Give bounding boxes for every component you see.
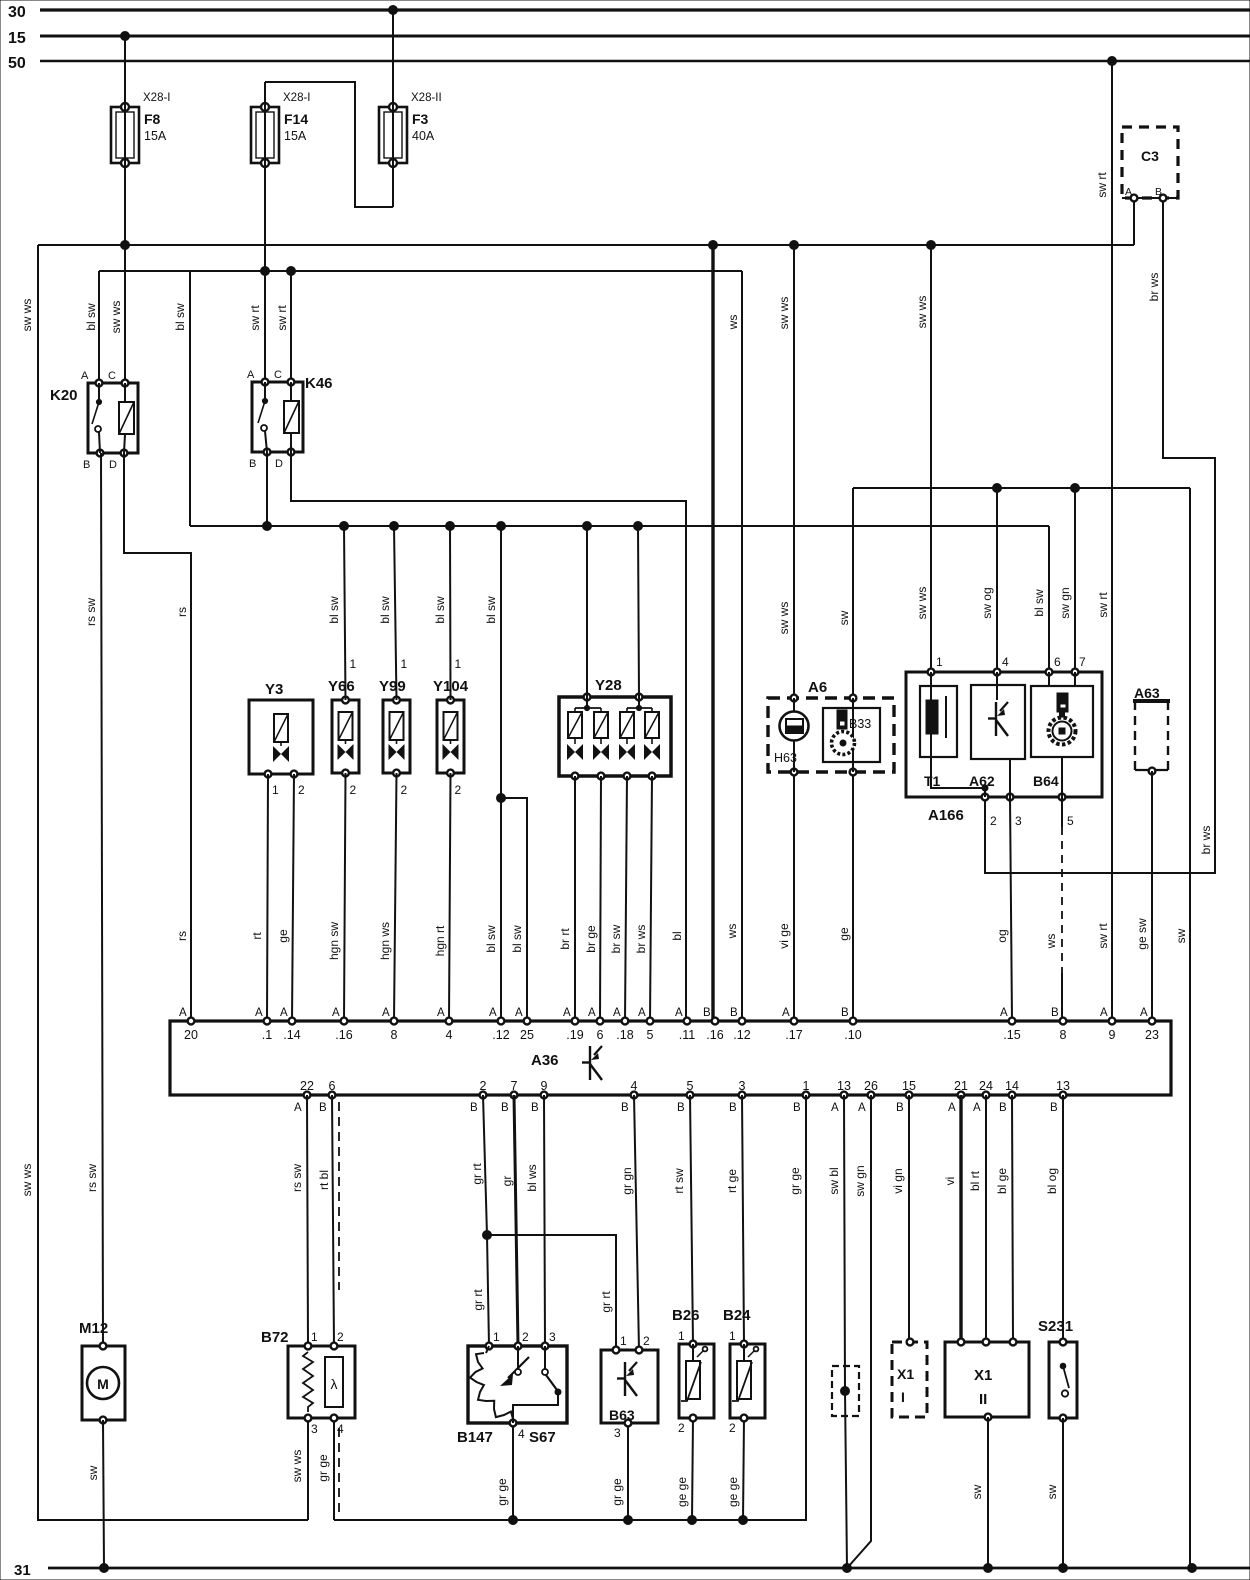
- svg-text:1: 1: [401, 657, 408, 671]
- svg-text:A: A: [1100, 1007, 1108, 1019]
- svg-text:A: A: [973, 1102, 981, 1114]
- svg-text:hgn rt: hgn rt: [433, 925, 447, 956]
- svg-text:.11: .11: [679, 1028, 695, 1042]
- svg-text:gr ge: gr ge: [788, 1167, 802, 1195]
- svg-text:br sw: br sw: [609, 924, 623, 953]
- svg-text:sw rt: sw rt: [1096, 592, 1110, 618]
- svg-text:ge ge: ge ge: [675, 1477, 689, 1507]
- svg-text:sw gn: sw gn: [853, 1165, 867, 1196]
- svg-text:2: 2: [350, 783, 357, 797]
- svg-text:9: 9: [1109, 1028, 1116, 1042]
- svg-text:rt sw: rt sw: [672, 1168, 686, 1194]
- svg-text:14: 14: [1005, 1079, 1019, 1093]
- svg-text:15A: 15A: [144, 129, 167, 143]
- svg-text:B: B: [677, 1102, 685, 1114]
- svg-text:X1: X1: [897, 1366, 914, 1382]
- svg-text:sw: sw: [86, 1465, 100, 1480]
- svg-text:A: A: [563, 1007, 571, 1019]
- svg-text:A: A: [588, 1007, 596, 1019]
- svg-text:5: 5: [647, 1028, 654, 1042]
- svg-text:I: I: [901, 1389, 905, 1405]
- svg-text:rs sw: rs sw: [84, 598, 98, 626]
- svg-text:rt: rt: [250, 932, 264, 940]
- svg-text:.16: .16: [706, 1028, 723, 1042]
- svg-text:F3: F3: [412, 111, 429, 127]
- svg-text:br rt: br rt: [558, 928, 572, 950]
- svg-text:1: 1: [455, 657, 462, 671]
- svg-text:8: 8: [1060, 1028, 1067, 1042]
- svg-text:1: 1: [803, 1079, 810, 1093]
- svg-text:B: B: [841, 1007, 849, 1019]
- svg-text:A36: A36: [531, 1052, 559, 1069]
- svg-text:X28-I: X28-I: [143, 92, 171, 104]
- svg-text:B147: B147: [457, 1429, 493, 1446]
- svg-text:C3: C3: [1141, 148, 1159, 164]
- svg-text:Y99: Y99: [379, 678, 406, 695]
- svg-text:sw: sw: [1174, 928, 1188, 943]
- svg-text:gr ge: gr ge: [610, 1478, 624, 1506]
- svg-text:vi gn: vi gn: [891, 1168, 905, 1193]
- svg-text:9: 9: [541, 1079, 548, 1093]
- svg-text:.1: .1: [262, 1028, 272, 1042]
- svg-text:bl sw: bl sw: [1032, 589, 1046, 617]
- svg-text:S67: S67: [529, 1429, 556, 1446]
- svg-text:2: 2: [522, 1330, 529, 1344]
- svg-text:gr rt: gr rt: [599, 1291, 613, 1313]
- svg-text:20: 20: [184, 1028, 198, 1042]
- svg-text:br ws: br ws: [634, 925, 648, 954]
- svg-text:bl sw: bl sw: [84, 303, 98, 331]
- svg-text:rs sw: rs sw: [290, 1164, 304, 1192]
- svg-text:A166: A166: [928, 807, 964, 824]
- svg-text:gr rt: gr rt: [471, 1289, 485, 1311]
- svg-text:sw bl: sw bl: [827, 1167, 841, 1194]
- svg-text:bl: bl: [670, 931, 684, 940]
- svg-text:vi ge: vi ge: [777, 923, 791, 949]
- svg-text:M12: M12: [79, 1320, 108, 1337]
- svg-text:22: 22: [300, 1079, 314, 1093]
- svg-text:7: 7: [1079, 655, 1086, 669]
- svg-text:D: D: [275, 458, 283, 470]
- svg-text:bl sw: bl sw: [484, 596, 498, 624]
- svg-text:M: M: [97, 1376, 109, 1392]
- svg-text:6: 6: [597, 1028, 604, 1042]
- svg-text:ws: ws: [1044, 934, 1058, 950]
- svg-text:sw ws: sw ws: [20, 1164, 34, 1197]
- svg-text:6: 6: [1054, 655, 1061, 669]
- svg-text:4: 4: [446, 1028, 453, 1042]
- svg-text:sw: sw: [1045, 1484, 1059, 1499]
- svg-text:B33: B33: [849, 717, 871, 731]
- svg-text:13: 13: [1056, 1079, 1070, 1093]
- svg-text:gr: gr: [500, 1176, 514, 1187]
- svg-text:.12: .12: [492, 1028, 509, 1042]
- svg-text:bl sw: bl sw: [484, 925, 498, 953]
- svg-text:br ge: br ge: [584, 925, 598, 953]
- svg-text:Y3: Y3: [265, 681, 283, 698]
- svg-text:sw ws: sw ws: [290, 1450, 304, 1483]
- svg-text:.18: .18: [616, 1028, 633, 1042]
- svg-text:3: 3: [311, 1422, 318, 1436]
- svg-text:B26: B26: [672, 1307, 700, 1324]
- svg-text:A: A: [81, 370, 89, 382]
- svg-text:B: B: [319, 1102, 327, 1114]
- svg-text:2: 2: [729, 1421, 736, 1435]
- svg-text:bl sw: bl sw: [433, 596, 447, 624]
- svg-text:F8: F8: [144, 111, 161, 127]
- svg-text:3: 3: [549, 1330, 556, 1344]
- svg-text:sw gn: sw gn: [1058, 587, 1072, 618]
- svg-text:sw: sw: [970, 1484, 984, 1499]
- svg-text:A: A: [489, 1007, 497, 1019]
- svg-text:.15: .15: [1003, 1028, 1020, 1042]
- svg-text:5: 5: [1067, 814, 1074, 828]
- svg-text:sw ws: sw ws: [915, 296, 929, 329]
- svg-text:B: B: [999, 1102, 1007, 1114]
- svg-text:T1: T1: [924, 773, 941, 789]
- svg-text:rt bl: rt bl: [317, 1170, 331, 1190]
- svg-text:gr ge: gr ge: [495, 1478, 509, 1506]
- svg-text:1: 1: [311, 1330, 318, 1344]
- svg-text:B: B: [501, 1102, 509, 1114]
- svg-text:1: 1: [729, 1329, 736, 1343]
- svg-text:X28-I: X28-I: [283, 92, 311, 104]
- svg-text:.16: .16: [335, 1028, 352, 1042]
- svg-text:rs sw: rs sw: [85, 1164, 99, 1192]
- svg-text:A: A: [782, 1007, 790, 1019]
- svg-text:1: 1: [620, 1334, 627, 1348]
- svg-text:gr ge: gr ge: [316, 1454, 330, 1482]
- svg-text:sw rt: sw rt: [248, 305, 262, 331]
- svg-text:sw rt: sw rt: [275, 305, 289, 331]
- svg-text:F14: F14: [284, 111, 308, 127]
- svg-text:bl sw: bl sw: [173, 303, 187, 331]
- svg-text:21: 21: [954, 1079, 968, 1093]
- svg-text:X1: X1: [974, 1367, 992, 1384]
- svg-text:gr gn: gr gn: [620, 1167, 634, 1194]
- svg-text:6: 6: [329, 1079, 336, 1093]
- svg-text:B: B: [896, 1102, 904, 1114]
- svg-text:A: A: [332, 1007, 340, 1019]
- svg-text:8: 8: [391, 1028, 398, 1042]
- svg-text:5: 5: [687, 1079, 694, 1093]
- svg-text:B: B: [703, 1007, 711, 1019]
- svg-text:.19: .19: [566, 1028, 583, 1042]
- svg-text:24: 24: [979, 1079, 993, 1093]
- svg-text:B64: B64: [1033, 773, 1059, 789]
- svg-text:B: B: [730, 1007, 738, 1019]
- svg-text:hgn ws: hgn ws: [378, 922, 392, 960]
- svg-text:B: B: [621, 1102, 629, 1114]
- svg-text:sw ws: sw ws: [777, 602, 791, 635]
- svg-text:D: D: [109, 459, 117, 471]
- svg-text:50: 50: [8, 55, 26, 72]
- svg-text:λ: λ: [331, 1376, 338, 1392]
- svg-text:B: B: [729, 1102, 737, 1114]
- svg-text:23: 23: [1145, 1028, 1159, 1042]
- svg-text:ws: ws: [725, 924, 739, 940]
- svg-text:2: 2: [337, 1330, 344, 1344]
- svg-text:og: og: [995, 929, 1009, 942]
- svg-text:25: 25: [520, 1028, 534, 1042]
- svg-text:.12: .12: [733, 1028, 750, 1042]
- svg-text:C: C: [274, 369, 282, 381]
- svg-text:sw ws: sw ws: [777, 297, 791, 330]
- svg-text:15A: 15A: [284, 129, 307, 143]
- svg-text:B: B: [1051, 1007, 1059, 1019]
- svg-text:A: A: [247, 369, 255, 381]
- svg-text:II: II: [979, 1391, 987, 1408]
- svg-text:bl ge: bl ge: [995, 1168, 1009, 1194]
- svg-text:bl rt: bl rt: [968, 1170, 982, 1191]
- svg-text:.10: .10: [844, 1028, 861, 1042]
- svg-text:H63: H63: [774, 751, 797, 765]
- svg-text:A: A: [1140, 1007, 1148, 1019]
- svg-text:sw ws: sw ws: [109, 301, 123, 334]
- svg-text:4: 4: [518, 1427, 525, 1441]
- svg-text:gr rt: gr rt: [470, 1163, 484, 1185]
- svg-text:15: 15: [8, 30, 26, 47]
- svg-text:B: B: [470, 1102, 478, 1114]
- svg-text:A: A: [382, 1007, 390, 1019]
- svg-text:sw ws: sw ws: [915, 587, 929, 620]
- svg-text:2: 2: [480, 1079, 487, 1093]
- svg-text:rs: rs: [175, 931, 189, 941]
- svg-text:Y66: Y66: [328, 678, 355, 695]
- svg-text:40A: 40A: [412, 129, 435, 143]
- svg-text:S231: S231: [1038, 1318, 1073, 1335]
- svg-text:rs: rs: [175, 607, 189, 617]
- svg-text:31: 31: [14, 1562, 31, 1579]
- svg-text:A: A: [294, 1102, 302, 1114]
- svg-text:13: 13: [837, 1079, 851, 1093]
- svg-text:A: A: [280, 1007, 288, 1019]
- svg-text:A: A: [831, 1102, 839, 1114]
- svg-text:ge: ge: [837, 927, 851, 941]
- svg-text:A: A: [1000, 1007, 1008, 1019]
- svg-text:sw og: sw og: [980, 587, 994, 618]
- svg-text:B: B: [249, 458, 256, 470]
- svg-text:2: 2: [455, 783, 462, 797]
- svg-text:ge ge: ge ge: [726, 1477, 740, 1507]
- svg-text:K46: K46: [305, 375, 333, 392]
- svg-text:1: 1: [350, 657, 357, 671]
- svg-text:A: A: [255, 1007, 263, 1019]
- svg-text:bl sw: bl sw: [327, 596, 341, 624]
- svg-text:2: 2: [678, 1421, 685, 1435]
- svg-text:15: 15: [902, 1079, 916, 1093]
- svg-text:K20: K20: [50, 387, 78, 404]
- svg-text:4: 4: [337, 1422, 344, 1436]
- svg-text:3: 3: [614, 1426, 621, 1440]
- svg-text:sw: sw: [837, 610, 851, 625]
- svg-text:bl ws: bl ws: [525, 1164, 539, 1191]
- svg-text:A: A: [675, 1007, 683, 1019]
- svg-text:C: C: [108, 370, 116, 382]
- svg-text:A: A: [858, 1102, 866, 1114]
- svg-text:sw rt: sw rt: [1095, 172, 1109, 198]
- svg-text:B: B: [793, 1102, 801, 1114]
- svg-text:B72: B72: [261, 1329, 289, 1346]
- svg-text:B: B: [531, 1102, 539, 1114]
- svg-text:3: 3: [739, 1079, 746, 1093]
- svg-text:X28-II: X28-II: [411, 92, 442, 104]
- svg-text:ws: ws: [726, 315, 740, 331]
- svg-text:A: A: [515, 1007, 523, 1019]
- svg-text:1: 1: [272, 783, 279, 797]
- svg-text:br ws: br ws: [1147, 273, 1161, 302]
- svg-text:1: 1: [936, 655, 943, 669]
- svg-text:sw ws: sw ws: [20, 299, 34, 332]
- svg-text:.14: .14: [283, 1028, 300, 1042]
- svg-text:7: 7: [511, 1079, 518, 1093]
- svg-text:26: 26: [864, 1079, 878, 1093]
- svg-text:4: 4: [1002, 655, 1009, 669]
- svg-text:vi: vi: [943, 1177, 957, 1186]
- svg-text:ge: ge: [276, 929, 290, 943]
- svg-text:B24: B24: [723, 1307, 751, 1324]
- svg-text:A63: A63: [1134, 685, 1160, 701]
- svg-text:B: B: [83, 459, 90, 471]
- svg-text:1: 1: [678, 1329, 685, 1343]
- svg-text:bl sw: bl sw: [510, 925, 524, 953]
- svg-text:2: 2: [401, 783, 408, 797]
- svg-text:.17: .17: [785, 1028, 802, 1042]
- svg-text:br ws: br ws: [1199, 826, 1213, 855]
- svg-text:1: 1: [493, 1330, 500, 1344]
- svg-text:A: A: [948, 1102, 956, 1114]
- svg-text:2: 2: [990, 814, 997, 828]
- svg-text:A: A: [613, 1007, 621, 1019]
- svg-text:bl og: bl og: [1045, 1168, 1059, 1194]
- svg-text:A: A: [179, 1007, 187, 1019]
- svg-text:2: 2: [298, 783, 305, 797]
- svg-text:2: 2: [643, 1334, 650, 1348]
- svg-text:sw rt: sw rt: [1096, 923, 1110, 949]
- svg-text:hgn sw: hgn sw: [327, 922, 341, 960]
- svg-text:A: A: [638, 1007, 646, 1019]
- svg-text:A6: A6: [808, 679, 827, 696]
- svg-text:30: 30: [8, 4, 26, 21]
- svg-text:rt ge: rt ge: [725, 1169, 739, 1193]
- svg-text:bl sw: bl sw: [378, 596, 392, 624]
- svg-text:4: 4: [631, 1079, 638, 1093]
- svg-text:B: B: [1050, 1102, 1058, 1114]
- svg-text:A: A: [437, 1007, 445, 1019]
- svg-text:ge sw: ge sw: [1135, 918, 1149, 950]
- svg-text:3: 3: [1015, 814, 1022, 828]
- svg-text:Y28: Y28: [595, 677, 622, 694]
